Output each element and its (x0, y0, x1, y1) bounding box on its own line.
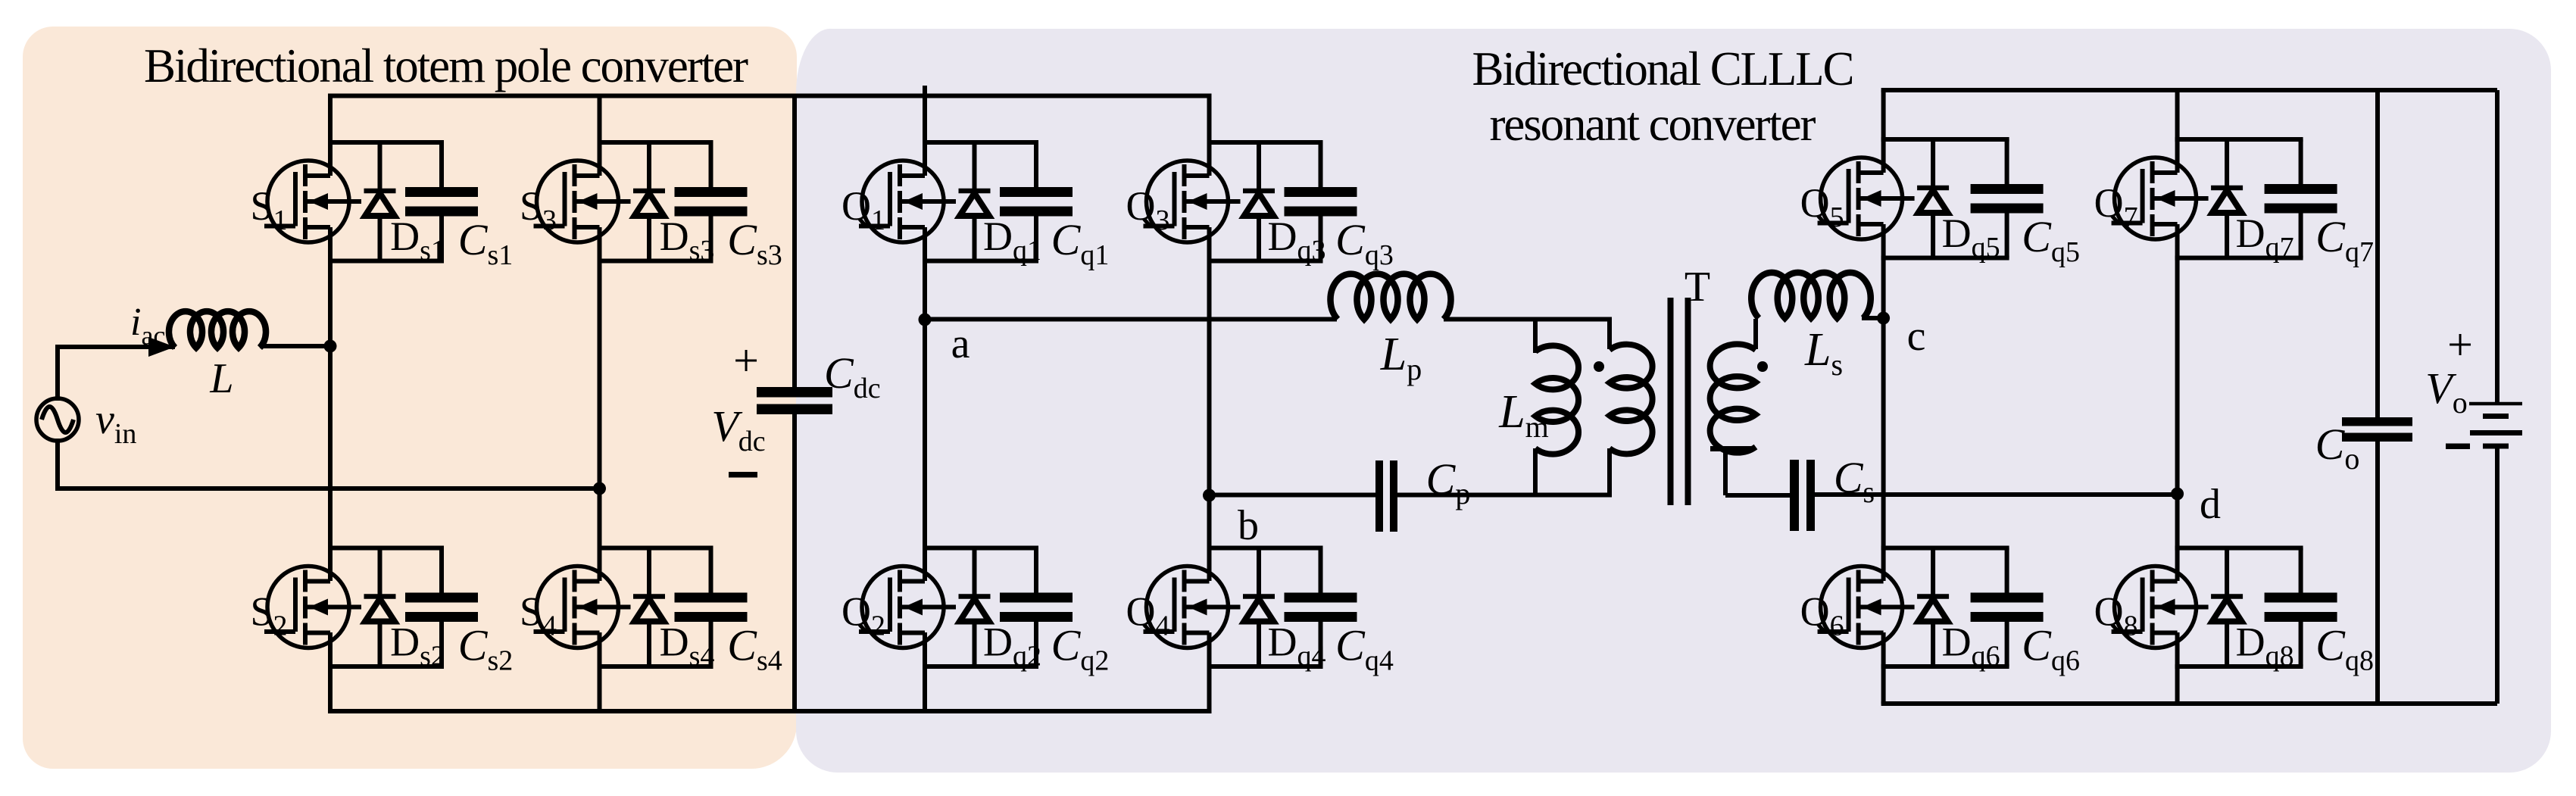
wire leg rail Q5/Q6 (1881, 90, 1886, 173)
capacitor Cs3 (675, 142, 748, 261)
svg-text:Bidirectional totem pole conve: Bidirectional totem pole converter (144, 39, 748, 92)
wire S3 bottom bracket (598, 259, 713, 264)
wire node a to Lp (925, 317, 1337, 322)
wire leg rail Q7/Q8 (2175, 90, 2180, 173)
capacitor Cq2 (1000, 548, 1073, 667)
capacitor Cs4 (675, 548, 748, 667)
capacitor Cs (1790, 460, 1799, 531)
wire Q7 bottom bracket (2175, 256, 2303, 261)
transistor Q8 (MOSFET) (2112, 567, 2209, 648)
node b (1203, 489, 1216, 502)
wire Q3 bottom bracket (1207, 259, 1323, 264)
wire vin top lead (55, 347, 60, 401)
wire Q1 top bracket (923, 140, 1038, 145)
wire branch to Lm (1533, 320, 1538, 354)
capacitor Cq1 (1000, 142, 1073, 261)
wire Vdc rail (792, 96, 797, 388)
wire Q2 bottom bracket (923, 664, 1038, 669)
current arrow iac (148, 337, 175, 357)
wire top bus (totem pole + primary bridge) (328, 94, 1212, 98)
primary polarity dot (1594, 361, 1604, 372)
label Vo minus (2446, 444, 2470, 450)
AC source vin (36, 398, 79, 441)
transistor S1 (MOSFET) (264, 161, 361, 242)
wire vin bottom lead (55, 439, 60, 489)
body diode Dq4 (1243, 548, 1275, 667)
battery Vo (2469, 404, 2522, 446)
transistor S3 (MOSFET) (534, 161, 631, 242)
body diode Ds4 (633, 548, 665, 667)
body diode Dq8 (2211, 548, 2243, 667)
transistor Q4 (MOSFET) (1144, 567, 1241, 648)
transistor Q7 (MOSFET) (2112, 158, 2209, 239)
transformer secondary winding (1753, 319, 1758, 349)
wire bottom bus (totem pole + primary bridge) (328, 709, 1212, 713)
wire Q6 top bracket (1881, 546, 2009, 551)
wire Q5 bottom bracket (1881, 256, 2009, 261)
wire leg rail S3/S4 (598, 96, 602, 176)
capacitor Cq6 (1971, 548, 2044, 667)
wire node b to Cp (1210, 493, 1378, 498)
body diode Dq1 (959, 142, 991, 261)
totem pole converter background region (23, 27, 797, 769)
svg-text:c: c (1907, 313, 1926, 360)
wire Lp to transformer (1444, 317, 1612, 322)
wire S4 top bracket (598, 546, 713, 551)
wire leg rail Q3/Q4 (1207, 96, 1212, 176)
wire Q3 top bracket (1207, 140, 1323, 145)
capacitor Cq8 (2265, 548, 2337, 667)
wire secondary bottom to Cs (1725, 493, 1791, 498)
svg-text:d: d (2200, 481, 2221, 528)
wire L to leg1 (260, 344, 330, 348)
inductor Lm (1535, 345, 1578, 454)
body diode Dq7 (2211, 139, 2243, 258)
node d (2171, 488, 2184, 501)
wire Cs to node d (1813, 492, 2179, 497)
svg-text:a: a (951, 320, 970, 367)
svg-text:resonant converter: resonant converter (1490, 98, 1816, 151)
wire S1 bottom bracket (328, 259, 444, 264)
wire S3 top bracket (598, 140, 713, 145)
wire Q1 bottom bracket (923, 259, 1038, 264)
transistor Q3 (MOSFET) (1144, 161, 1241, 242)
wire stub above bus at Q1 (923, 86, 927, 95)
transistor Q1 (MOSFET) (859, 161, 956, 242)
wire S4 bottom bracket (598, 664, 713, 669)
svg-text:Bidirectional CLLLC: Bidirectional CLLLC (1472, 42, 1855, 95)
body diode Dq2 (959, 548, 991, 667)
capacitor Cq7 (2265, 139, 2337, 258)
node L junction (324, 340, 337, 353)
transistor Q2 (MOSFET) (859, 567, 956, 648)
transformer T primary winding (1607, 320, 1612, 350)
inductor Lp (1331, 274, 1451, 320)
capacitor Cq4 (1285, 548, 1357, 667)
wire S2 top bracket (328, 546, 444, 551)
transistor S2 (MOSFET) (264, 567, 361, 648)
capacitor Cs1 (405, 142, 478, 261)
wire leg rail S1/S2 (328, 96, 333, 176)
transistor Q6 (MOSFET) (1818, 567, 1915, 648)
node vin return junction (593, 482, 606, 495)
wire Q6 bottom bracket (1881, 664, 2009, 669)
wire Q4 bottom bracket (1207, 664, 1323, 669)
node a (919, 314, 932, 326)
svg-text:b: b (1238, 502, 1259, 549)
body diode Dq3 (1243, 142, 1275, 261)
wire Q8 bottom bracket (2175, 664, 2303, 669)
node c (1877, 312, 1890, 325)
capacitor Cq5 (1971, 139, 2044, 258)
label Vdc minus (729, 472, 757, 478)
body diode Dq5 (1917, 139, 1949, 258)
wire Co rail (2375, 90, 2380, 417)
transistor S4 (MOSFET) (534, 567, 631, 648)
inductor Ls (1751, 273, 1871, 318)
wire Q2 top bracket (923, 546, 1038, 551)
svg-text:L: L (209, 355, 233, 402)
capacitor Cp (1375, 460, 1383, 532)
capacitor Cdc (757, 387, 832, 398)
wire Q5 top bracket (1881, 137, 2009, 142)
wire leg rail Q1/Q2 (923, 96, 927, 176)
capacitor Co (2342, 417, 2412, 426)
svg-text:+: + (733, 336, 759, 386)
wire bottom bus (secondary bridge) (1881, 701, 2497, 706)
body diode Ds2 (364, 548, 396, 667)
CLLLC converter background region (796, 29, 2551, 773)
wire Vo rail (2495, 90, 2500, 402)
wire Q8 top bracket (2175, 546, 2303, 551)
wire Q7 top bracket (2175, 137, 2303, 142)
secondary polarity dot (1757, 361, 1768, 372)
inductor L (169, 311, 266, 348)
body diode Dq6 (1917, 548, 1949, 667)
wire S1 top bracket (328, 140, 444, 145)
svg-text:T: T (1685, 264, 1710, 311)
wire Q4 top bracket (1207, 546, 1323, 551)
capacitor Cs2 (405, 548, 478, 667)
wire Ls to node c (1862, 316, 1885, 320)
wire S2 bottom bracket (328, 664, 444, 669)
capacitor Cq3 (1285, 142, 1357, 261)
svg-text:+: + (2447, 320, 2473, 370)
transistor Q5 (MOSFET) (1818, 158, 1915, 239)
body diode Ds3 (633, 142, 665, 261)
body diode Ds1 (364, 142, 396, 261)
transformer core (1668, 298, 1674, 505)
wire top bus (secondary bridge) (1881, 88, 2497, 92)
wire Cp to transformer bottom (1397, 493, 1612, 498)
